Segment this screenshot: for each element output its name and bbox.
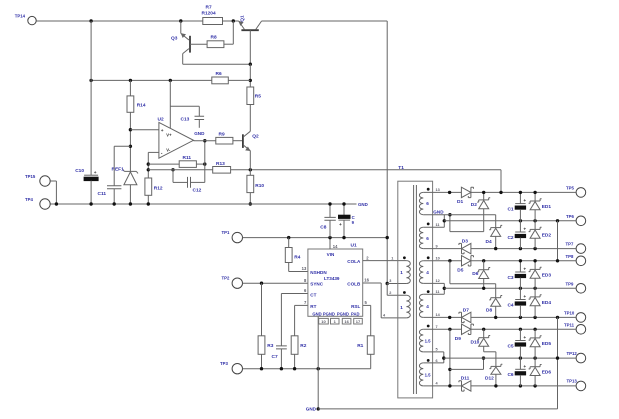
resistor R10	[247, 175, 254, 192]
svg-text:C8: C8	[320, 224, 326, 230]
svg-text:RT: RT	[310, 304, 316, 309]
svg-text:TP11: TP11	[564, 323, 575, 328]
test point TP6	[576, 216, 586, 226]
svg-text:11: 11	[436, 290, 440, 294]
svg-text:D4: D4	[486, 239, 492, 245]
junction - input / feedback rail	[147, 168, 150, 171]
svg-text:1: 1	[391, 256, 393, 260]
junction GND corner	[317, 407, 320, 410]
diode D2	[483, 192, 485, 200]
svg-text:6: 6	[436, 359, 438, 363]
capacitor C2	[519, 221, 521, 232]
svg-text:C12: C12	[193, 187, 202, 193]
zener ED5	[534, 329, 536, 338]
svg-text:R7: R7	[206, 4, 212, 10]
resistor R11	[148, 163, 179, 165]
wire Q3 base to R8	[190, 43, 207, 45]
svg-text:D8: D8	[486, 308, 492, 314]
svg-text:TP1: TP1	[222, 230, 230, 235]
junction R2 bottom	[293, 367, 296, 370]
main rail y=80 from C10 to R6	[91, 79, 212, 81]
svg-text:TP4: TP4	[25, 197, 33, 202]
svg-text:TP6: TP6	[566, 214, 574, 219]
wire jog C branch to row8	[450, 368, 484, 370]
zener ED1	[534, 192, 536, 201]
junction C1 top	[519, 191, 522, 194]
wire output row A	[423, 191, 461, 193]
svg-text:V+: V+	[166, 133, 172, 138]
junction row6 stub	[448, 316, 451, 319]
svg-text:D12: D12	[485, 376, 494, 382]
wire center tap 3	[423, 351, 444, 353]
svg-text:V-: V-	[166, 148, 171, 153]
junction center tap 3 / row8	[442, 356, 445, 359]
svg-text:11: 11	[436, 223, 440, 227]
svg-text:R11: R11	[183, 155, 192, 161]
junction D2 top on row A	[482, 191, 485, 194]
T1 secondary winding 1 (6T)	[419, 192, 423, 214]
junction center tap 2 / row5	[443, 287, 446, 290]
junction ED3 top	[533, 259, 536, 262]
svg-text:D2: D2	[471, 202, 477, 208]
junction ED4 bottom	[533, 316, 536, 319]
svg-text:TP8: TP8	[566, 254, 574, 259]
junction C5 bottom	[519, 356, 522, 359]
junction R12 bottom	[147, 202, 150, 205]
wire Q2 emitter to R10	[249, 151, 251, 176]
svg-text:+: +	[523, 295, 526, 300]
wire GND pin down	[317, 316, 319, 409]
resistor R12	[145, 178, 152, 195]
T1 primary winding 2	[406, 295, 410, 318]
svg-text:1: 1	[400, 305, 403, 310]
IC U1 LT3439 box	[308, 249, 363, 316]
junction D6 top on row 4	[482, 259, 485, 262]
svg-text:COLB: COLB	[347, 282, 361, 287]
junction VIN rail / TP1 row	[386, 236, 389, 239]
op-amp U2	[159, 122, 194, 158]
test point TP2	[232, 278, 242, 288]
feedback rail to R13 and output sense	[148, 169, 212, 171]
diode D10	[483, 329, 485, 337]
test point TP5	[576, 188, 586, 198]
svg-text:R2: R2	[300, 343, 306, 349]
svg-text:COLA: COLA	[347, 259, 361, 264]
wire output row 3	[423, 248, 461, 250]
diode D12	[491, 367, 501, 374]
junction R11 right / output column	[203, 162, 206, 165]
svg-text:3: 3	[389, 279, 391, 283]
svg-text:4: 4	[426, 270, 429, 275]
svg-text:GND: GND	[194, 131, 205, 136]
junction sense tap on row A	[499, 191, 502, 194]
transistor Q3	[180, 21, 182, 33]
junction C1 bottom	[519, 219, 522, 222]
svg-text:13: 13	[302, 266, 307, 271]
transistor Q2	[242, 134, 244, 148]
test point TP15	[40, 176, 50, 186]
wire center tap 1	[443, 215, 445, 228]
svg-text:13: 13	[436, 188, 440, 192]
svg-text:SYNC: SYNC	[310, 282, 323, 287]
junction output node	[203, 139, 206, 142]
svg-text:TP13: TP13	[567, 379, 578, 384]
junction jog B on row 4	[448, 259, 451, 262]
wire op-amp output to R9	[194, 140, 216, 142]
wire R9 to Q2 base	[233, 140, 243, 142]
junction VIN stub / TP1 row	[328, 236, 331, 239]
svg-text:ED1: ED1	[542, 204, 552, 210]
svg-text:PGND: PGND	[337, 311, 349, 316]
svg-text:NSHDN: NSHDN	[310, 270, 327, 275]
svg-text:D9: D9	[455, 336, 461, 342]
resistor R4	[288, 238, 290, 248]
wire lower common drop	[557, 317, 559, 409]
resistor R14	[127, 96, 134, 112]
T1 primary phase dots	[403, 256, 406, 259]
svg-text:Q2: Q2	[252, 134, 259, 140]
wire to op-amp + input	[130, 129, 159, 131]
resistor R13	[213, 167, 231, 174]
junction C6 bottom	[519, 384, 522, 387]
junction ED6 bottom	[533, 384, 536, 387]
junction at C10 column / top rail	[89, 19, 92, 22]
wire R7 to Q1	[223, 20, 239, 22]
svg-text:ED3: ED3	[542, 272, 552, 278]
transformer core	[413, 185, 415, 394]
junction C9 bottom	[342, 236, 345, 239]
svg-text:2: 2	[389, 291, 391, 295]
junction TP15 drop	[55, 202, 58, 205]
svg-text:GND: GND	[312, 311, 321, 316]
svg-text:TP9: TP9	[566, 281, 574, 286]
zener ED3	[534, 261, 536, 270]
resistor R2 on RT pin	[295, 304, 308, 306]
svg-text:TP5: TP5	[566, 185, 574, 190]
diode D3	[462, 243, 471, 253]
wire output row 6	[423, 316, 461, 318]
wire to C13	[170, 105, 199, 107]
capacitor C5	[519, 329, 521, 340]
wire jog C vertical	[449, 329, 451, 386]
svg-text:TP14: TP14	[15, 13, 26, 18]
test point TP8	[576, 256, 586, 266]
wire center tap branches	[387, 283, 406, 285]
junction ED5 bottom	[533, 356, 536, 359]
svg-text:PAD: PAD	[351, 311, 360, 316]
svg-text:5: 5	[436, 348, 438, 352]
svg-text:D11: D11	[461, 375, 470, 381]
resistor R7 value R1204	[203, 18, 223, 25]
transformer T1 box	[398, 181, 433, 398]
junction C4 bottom	[519, 316, 522, 319]
svg-text:R9: R9	[219, 131, 225, 137]
junction C3 top	[519, 259, 522, 262]
svg-text:C6: C6	[507, 372, 513, 378]
svg-text:R3: R3	[267, 343, 273, 349]
svg-text:+: +	[523, 199, 526, 204]
capacitor C7 on CT pin	[281, 293, 308, 295]
wire R5 to Q2 collector	[249, 105, 251, 132]
diode D7	[462, 312, 471, 322]
capacitor C1	[519, 192, 521, 203]
svg-text:10: 10	[436, 257, 440, 261]
junction common drop bottom	[556, 259, 559, 262]
transistor Q1 (PNP pass)	[241, 29, 258, 31]
junction lower common drop on row8	[556, 356, 559, 359]
pin 16 COLB wire	[363, 282, 382, 284]
junction REF1 bottom	[129, 202, 132, 205]
junction +input tee	[129, 128, 132, 131]
svg-text:C13: C13	[181, 117, 190, 123]
svg-text:16: 16	[364, 278, 369, 283]
svg-text:T1: T1	[398, 165, 404, 171]
svg-text:9: 9	[436, 244, 438, 248]
T1 secondary phase dots	[427, 188, 430, 191]
wire R6 to R5 column	[228, 79, 250, 81]
svg-text:TP15: TP15	[25, 174, 36, 179]
svg-text:C7: C7	[272, 354, 278, 360]
wire op-amp output column	[204, 141, 206, 183]
svg-text:R5: R5	[255, 94, 261, 100]
junction D6 bottom	[482, 287, 485, 290]
svg-text:1.5: 1.5	[425, 338, 432, 343]
svg-text:+: +	[523, 228, 526, 233]
junction ED2 bottom	[533, 247, 536, 250]
svg-text:U2: U2	[158, 117, 164, 123]
junction R6 right / R5 column	[249, 79, 252, 82]
svg-text:+: +	[339, 223, 342, 228]
junction C8 top	[328, 202, 331, 205]
capacitor C13	[198, 106, 200, 116]
junction C7 bottom	[280, 367, 283, 370]
test point TP12	[576, 353, 586, 363]
junction VIN at primary center tap	[386, 282, 389, 285]
svg-text:+: +	[161, 129, 164, 134]
wire: TP14 top rail	[36, 20, 203, 22]
wire R14 to REF1	[129, 112, 131, 171]
wire D2 anode jog	[450, 231, 484, 233]
svg-text:REF1: REF1	[112, 167, 125, 173]
svg-text:D6: D6	[472, 271, 478, 277]
T1 secondary winding 6 (1.5T)	[419, 363, 423, 386]
test point TP3	[232, 364, 242, 374]
wire op-amp - input	[148, 151, 159, 153]
wire VIN rail vertical	[386, 21, 388, 284]
svg-text:ED4: ED4	[542, 300, 552, 306]
wire TP2 to SYNC pin	[243, 282, 308, 284]
capacitor C6	[519, 358, 521, 369]
wire R13 to output1 sense corner	[231, 169, 501, 171]
resistor R6	[212, 77, 229, 84]
capacitor C12 loop	[171, 168, 174, 171]
wire common row 5	[444, 287, 575, 289]
junction - input / R11	[147, 162, 150, 165]
resistor R1 on RSL pin	[363, 304, 371, 306]
svg-text:C1: C1	[507, 206, 513, 212]
junction C11 bottom	[113, 202, 116, 205]
junction R4 top	[287, 236, 290, 239]
capacitor C8	[329, 204, 331, 217]
svg-text:+: +	[523, 365, 526, 370]
svg-text:16: 16	[344, 319, 349, 324]
wire TP1 to VIN rail	[243, 237, 388, 239]
diode D6	[483, 261, 485, 270]
svg-text:10: 10	[321, 319, 326, 324]
svg-text:C2: C2	[507, 235, 513, 241]
diode D1	[461, 187, 471, 197]
wire R14 column	[129, 80, 131, 96]
svg-text:6: 6	[426, 201, 429, 206]
svg-text:12: 12	[436, 279, 440, 283]
test point TP11	[576, 325, 586, 335]
zener ED2	[534, 221, 536, 230]
svg-text:R14: R14	[137, 102, 146, 108]
capacitor C3	[519, 261, 521, 272]
svg-text:Q1: Q1	[240, 15, 246, 22]
svg-text:GND: GND	[306, 406, 317, 411]
resistor R5	[247, 87, 254, 105]
svg-text:TP7: TP7	[566, 241, 574, 246]
junction C11 tee	[129, 145, 132, 148]
capacitor C11	[107, 186, 121, 189]
svg-text:R10: R10	[255, 183, 264, 189]
junction jog C on row7	[448, 328, 451, 331]
svg-text:CT: CT	[310, 292, 316, 297]
diode D8	[491, 298, 501, 306]
junction D12 bottom on row9	[494, 384, 497, 387]
svg-text:1.5: 1.5	[425, 372, 432, 377]
test point TP7	[576, 244, 586, 254]
wire C10 column	[90, 21, 92, 175]
svg-text:ED6: ED6	[542, 370, 552, 376]
capacitor C9 polarized	[343, 204, 345, 215]
wire Q3 collector to Q1 base	[182, 54, 184, 65]
svg-text:D7: D7	[463, 308, 469, 314]
svg-text:R4: R4	[294, 255, 300, 261]
wire center tap 2	[423, 282, 444, 284]
junction D10 top on row7	[482, 328, 485, 331]
svg-text:LT3439: LT3439	[324, 276, 340, 281]
bottom control row	[243, 368, 371, 370]
test point TP13	[576, 381, 586, 391]
junction Q2 emitter / rail	[249, 168, 252, 171]
svg-text:RSL: RSL	[351, 304, 360, 309]
junction rail/R14 column	[129, 79, 132, 82]
capacitor C10 polarized	[84, 174, 98, 176]
svg-text:R1: R1	[357, 343, 363, 349]
svg-text:R13: R13	[216, 161, 225, 167]
test point TP4	[40, 199, 50, 209]
junction GND column	[317, 367, 320, 370]
svg-text:U1: U1	[351, 243, 357, 249]
junction R3 bottom	[260, 367, 263, 370]
wire Q1 collector to VIN rail corner	[262, 20, 388, 22]
junction rail/V+ drop	[169, 79, 172, 82]
junction D2 jog on tap line	[448, 213, 451, 216]
junction center tap / row2	[443, 219, 446, 222]
junction rail/C10 column	[89, 79, 92, 82]
test point TP10	[576, 313, 586, 323]
svg-text:C3: C3	[507, 275, 513, 281]
wire output row 4	[423, 260, 461, 262]
junction ED5 top	[533, 328, 536, 331]
svg-text:R1204: R1204	[202, 11, 216, 17]
diode D5	[462, 256, 471, 266]
junction ED1 top	[533, 191, 536, 194]
junction D4 bottom on row3	[494, 247, 497, 250]
wire common row 2	[444, 220, 575, 222]
junction at Q3 emitter column	[179, 19, 182, 22]
svg-text:C10: C10	[75, 168, 84, 174]
svg-text:Q3: Q3	[171, 36, 178, 42]
junction D8 bottom on row6	[494, 316, 497, 319]
wire jog B to D8	[449, 261, 451, 284]
svg-text:1: 1	[400, 270, 403, 275]
wire winding1 bottom tap line	[423, 214, 495, 216]
svg-text:R12: R12	[154, 186, 163, 192]
junction R3 top	[260, 282, 263, 285]
wire output row 7	[423, 328, 461, 330]
wire Q1 base down	[249, 30, 251, 64]
svg-text:7: 7	[436, 325, 438, 329]
junction C3 bottom	[519, 287, 522, 290]
wire V+ supply drop	[169, 80, 171, 128]
resistor R9	[216, 137, 233, 144]
svg-text:ED5: ED5	[542, 341, 552, 347]
svg-text:TP3: TP3	[220, 361, 228, 366]
svg-text:C11: C11	[98, 191, 107, 197]
junction jog C branch	[448, 368, 451, 371]
junction Q1 base node	[249, 62, 252, 65]
wire common row 8	[444, 357, 576, 359]
svg-text:C5: C5	[507, 343, 513, 349]
svg-text:TP12: TP12	[567, 351, 578, 356]
svg-text:PGND: PGND	[323, 311, 335, 316]
zener ED4	[534, 288, 536, 297]
test point TP14	[28, 16, 36, 24]
junction lower common drop top	[556, 316, 559, 319]
T1 secondary winding 5 (1.5T)	[419, 329, 423, 352]
wire node to R5	[249, 64, 251, 87]
ground return rail	[318, 408, 557, 410]
svg-text:6: 6	[426, 236, 429, 241]
junction R10 bottom	[249, 202, 252, 205]
junction C10 bottom	[89, 202, 92, 205]
T1 secondary winding 4 (4T)	[419, 294, 423, 317]
svg-text:+: +	[94, 171, 97, 176]
T1 secondary winding 2 (6T)	[419, 227, 423, 248]
test point TP1	[232, 232, 242, 242]
svg-text:+: +	[523, 268, 526, 273]
svg-text:R6: R6	[216, 71, 222, 77]
junction ED3 bottom	[533, 287, 536, 290]
bottom analog rail to GND label	[50, 203, 356, 205]
svg-text:TP2: TP2	[222, 276, 230, 281]
svg-text:D3: D3	[462, 239, 468, 245]
junction common drop top	[556, 219, 559, 222]
wire D10 to D12 jog	[484, 351, 496, 353]
svg-text:+: +	[523, 336, 526, 341]
T1 secondary winding 3 (4T)	[419, 261, 423, 284]
pin 2 COLA wire	[363, 260, 407, 262]
U1 bottom pads	[319, 318, 329, 324]
wire sense drop to output row A	[500, 170, 502, 193]
diode D11	[462, 381, 471, 391]
svg-text:D1: D1	[457, 199, 463, 205]
resistor R3	[261, 283, 263, 336]
junction ED1 bottom	[533, 219, 536, 222]
